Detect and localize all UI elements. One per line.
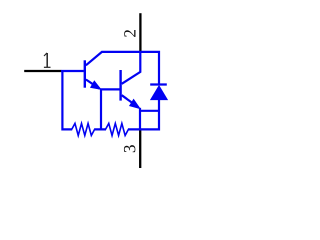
resistor R1 zigzag [72, 123, 95, 135]
transistor Q1 emitter arrow [91, 81, 101, 89]
transistor Q2 collector [122, 53, 141, 84]
pin 2 wire (collector) [139, 13, 141, 52]
pin number 3 [124, 145, 135, 152]
transistor Q2 emitter arrow [130, 99, 140, 108]
transistor Q2 emitter [122, 95, 139, 107]
wire Q2 emitter down to rail [139, 108, 141, 130]
transistor Q2 base bar [119, 70, 121, 101]
wire emitter node to diode [140, 110, 159, 112]
wire base to Q1 [61, 70, 84, 72]
wire mid vertical (Q1 emitter node to resistor junction) [100, 89, 102, 129]
pin number 1 [44, 53, 51, 67]
pin number 2 [124, 30, 135, 37]
resistor R2 zigzag [106, 123, 129, 135]
transistor Q1 base bar [84, 60, 86, 87]
diode D1 cathode bar [150, 83, 167, 85]
pin 3 wire (emitter) [139, 129, 141, 168]
transistor Q1 collector + top rail + diode upper lead [86, 52, 159, 85]
wire Q1 emitter to Q2 base [100, 88, 119, 90]
diode D1 triangle [151, 86, 168, 100]
wire left drop + bottom rail flats + diode lower lead [62, 71, 159, 129]
transistor Q1 emitter [86, 80, 100, 89]
pin 1 wire (base) [24, 70, 61, 72]
